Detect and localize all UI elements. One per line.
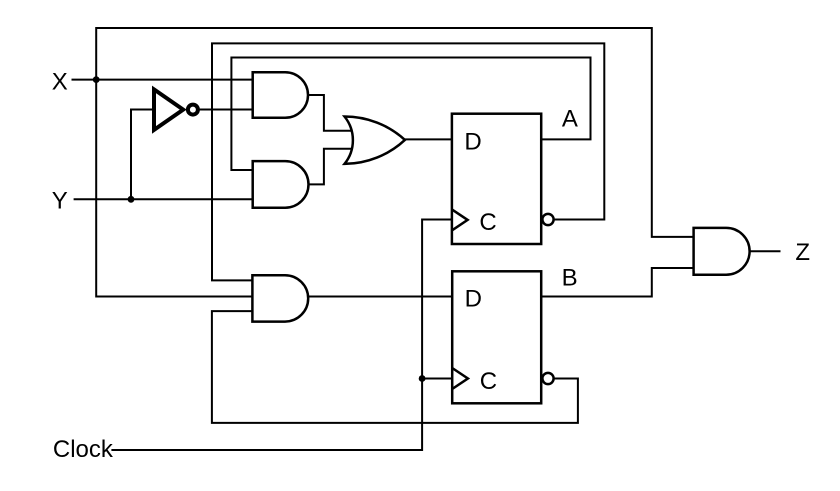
- junction on Clock riser: [419, 375, 426, 382]
- wire AND3 output to FF2 D input: [308, 296, 452, 298]
- wire AND1 output to OR upper input: [308, 95, 352, 131]
- junction on X input: [93, 76, 100, 83]
- wire Clock stub to FF2 C input: [422, 378, 452, 380]
- svg-text:D: D: [465, 286, 482, 313]
- svg-text:Z: Z: [795, 239, 810, 266]
- svg-text:B: B: [562, 264, 578, 291]
- wire FF1 Q-bar feedback to AND3 upper input: [212, 43, 604, 280]
- or-gate OR1: [345, 116, 405, 163]
- wire AND2 output to OR lower input: [309, 149, 353, 185]
- svg-text:X: X: [52, 69, 68, 96]
- flip-flop FF1 Q-bar bubble: [542, 214, 553, 225]
- junction on Y input: [128, 196, 135, 203]
- wire FF2 Q-bar feedback to AND3 lower input: [212, 311, 578, 423]
- wire node B: FF2 Q output to Z-AND lower input: [541, 268, 693, 297]
- and-gate AND3: [252, 275, 308, 321]
- wire Clock lead and riser to FF1 C input: [111, 220, 452, 451]
- svg-text:C: C: [479, 209, 496, 236]
- svg-text:Y: Y: [52, 187, 68, 214]
- svg-text:C: C: [480, 368, 497, 395]
- inverter U1 bubble: [188, 105, 198, 115]
- and-gate AND1: [253, 72, 308, 118]
- wire X input lead: [72, 79, 253, 81]
- wire Z output lead: [750, 250, 781, 252]
- svg-text:D: D: [464, 128, 481, 155]
- flip-flop FF2 body: [452, 271, 541, 403]
- wire OR output to FF1 D input: [405, 138, 452, 140]
- flip-flop FF2 clock triangle: [452, 368, 468, 389]
- wire node A: FF1 Q output feedback to AND2 upper input: [231, 58, 590, 171]
- flip-flop FF2 Q-bar bubble: [542, 373, 553, 384]
- wire Y input lead: [74, 198, 253, 200]
- inverter U1 triangle: [154, 89, 183, 129]
- and-gate AND4 (output Z): [694, 228, 750, 275]
- svg-text:A: A: [562, 106, 578, 133]
- flip-flop FF1 clock triangle: [452, 209, 468, 230]
- flip-flop FF1 body: [452, 114, 541, 244]
- wire Y branch up to inverter input: [131, 110, 152, 200]
- wire X branch: down to AND3 mid input, up to top rail, across, down to Z-AND top input: [96, 28, 693, 297]
- wire inverter output to AND1 lower input: [198, 109, 253, 111]
- svg-text:Clock: Clock: [53, 436, 114, 463]
- and-gate AND2: [253, 161, 309, 208]
